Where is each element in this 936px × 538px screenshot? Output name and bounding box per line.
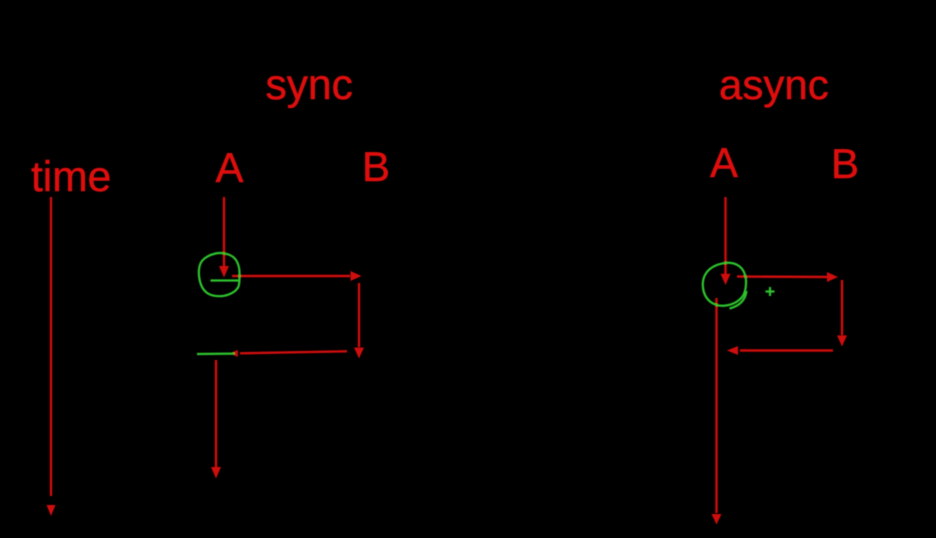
svg-text:async: async: [719, 61, 829, 108]
svg-text:A: A: [710, 139, 738, 186]
svg-text:A: A: [216, 144, 244, 191]
svg-text:B: B: [362, 143, 390, 190]
svg-text:B: B: [831, 140, 859, 187]
svg-text:sync: sync: [266, 62, 353, 109]
svg-text:time: time: [31, 154, 111, 201]
